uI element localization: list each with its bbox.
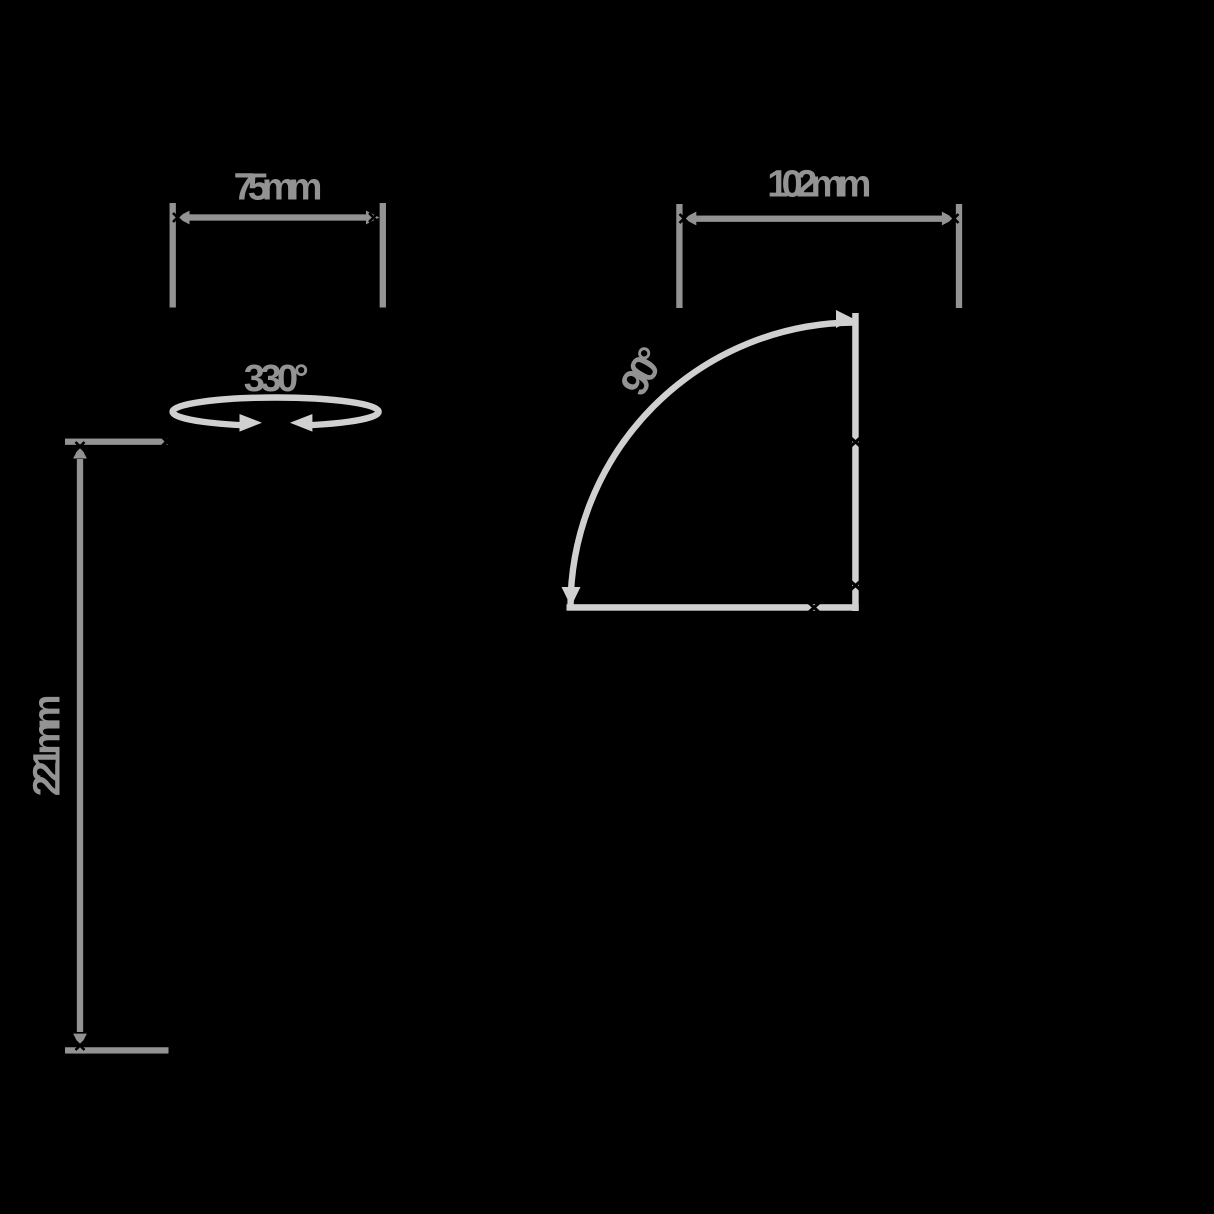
arrowhead left (75mm)	[176, 211, 189, 225]
rotation arrowhead left (points right)	[240, 414, 263, 432]
svg-text:102mm: 102mm	[767, 164, 869, 206]
extension line left (75mm)	[170, 203, 176, 308]
endpoint cross tick right end (330 dim)	[163, 437, 172, 446]
arrowhead bottom (221mm)	[73, 1034, 87, 1047]
dimension line vertical (221mm)	[77, 459, 83, 1032]
extension line left (102mm)	[676, 204, 682, 308]
rotation ellipse gap mask	[240, 415, 312, 436]
cross mark on vertical leg upper	[851, 438, 861, 447]
angle leg horizontal (90deg)	[567, 604, 859, 611]
cross mark on horizontal leg	[809, 603, 819, 612]
angle arc 90deg	[571, 323, 853, 608]
arc arrowhead bottom (points down)	[562, 587, 581, 607]
svg-text:330°: 330°	[244, 358, 308, 400]
endpoint cross left (75mm)	[173, 213, 182, 222]
dimension line (75mm)	[187, 214, 367, 220]
dimension line (102mm)	[694, 216, 944, 222]
endpoint cross right (75mm)	[369, 213, 378, 222]
arrowhead right (75mm)	[366, 211, 379, 225]
extension line right (75mm)	[380, 203, 386, 308]
extension tick top (221mm)	[65, 439, 169, 445]
extension tick bottom (221mm)	[65, 1047, 169, 1053]
rotation arrowhead right (points left)	[290, 414, 313, 432]
extension line right (102mm)	[956, 204, 962, 308]
svg-text:75mm: 75mm	[234, 167, 321, 209]
arrowhead top (221mm)	[73, 445, 87, 458]
cross mark on vertical leg lower	[851, 581, 861, 590]
arrowhead right (102mm)	[942, 212, 955, 226]
arrowhead left (102mm)	[683, 212, 696, 226]
endpoint cross left (102mm)	[680, 214, 689, 223]
angle leg vertical (90deg)	[852, 313, 859, 611]
endpoint cross top (221mm)	[76, 442, 85, 451]
endpoint cross bottom (221mm)	[76, 1041, 85, 1050]
arc arrowhead top (points right)	[836, 310, 854, 328]
endpoint cross right (102mm)	[950, 214, 959, 223]
rotation ellipse 330deg	[173, 398, 379, 426]
svg-text:221mm: 221mm	[27, 696, 69, 796]
